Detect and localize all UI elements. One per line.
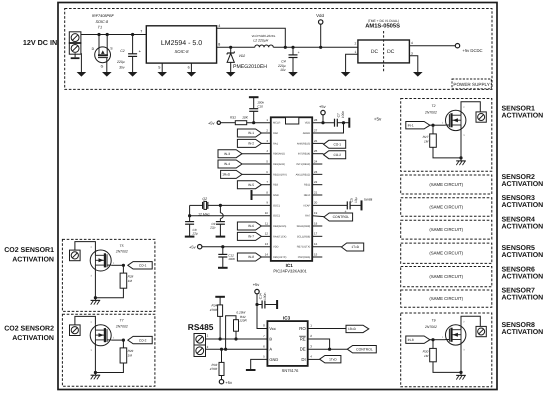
svg-text:T7: T7 (120, 319, 124, 323)
svg-text:ACTIVATION: ACTIVATION (502, 202, 544, 209)
svg-text:6: 6 (188, 65, 190, 69)
svg-text:+: + (298, 51, 300, 55)
svg-text:RB3: RB3 (273, 184, 279, 187)
svg-text:RA7: RA7 (305, 215, 311, 218)
transistor T1 IRF7408PBF reverse-polarity P-MOSFET (95, 47, 111, 63)
wire VDD pin 28 (312, 122, 334, 124)
sensor6 dashed box (SAME CIRCUIT) (401, 267, 492, 287)
svg-text:CO2 SENSOR2: CO2 SENSOR2 (4, 326, 54, 333)
svg-text:T2: T2 (432, 104, 436, 108)
resistor R31 10K + terminal +5v (217, 121, 220, 124)
svg-text:100n: 100n (341, 111, 345, 119)
svg-text:+5v DCDC: +5v DCDC (462, 48, 482, 53)
sensor2 dashed box (SAME CIRCUIT) (401, 175, 492, 194)
svg-text:VLCF5020-221KL: VLCF5020-221KL (251, 34, 275, 38)
ground (VD2) (226, 72, 236, 77)
power supply dashed enclosure (65, 9, 492, 90)
svg-text:CO-2: CO-2 (139, 338, 147, 342)
wire source/ground (433, 362, 461, 373)
ground (co2 sensor2) (91, 374, 101, 376)
svg-text:IN-7: IN-7 (248, 235, 254, 239)
svg-text:RA0: RA0 (273, 132, 279, 135)
svg-text:(SAME CIRCUIT): (SAME CIRCUIT) (429, 296, 463, 301)
svg-text:C4: C4 (281, 60, 285, 64)
svg-text:IN-8: IN-8 (248, 255, 254, 259)
svg-text:OSC1: OSC1 (273, 204, 281, 207)
sensor8 dashed box (401, 313, 492, 387)
schematic outer border (58, 3, 497, 390)
svg-text:IRF7408PBF: IRF7408PBF (92, 14, 115, 18)
svg-text:PIC24FV32KA301: PIC24FV32KA301 (273, 269, 307, 274)
net flag IN-8 (sensor8) (406, 336, 430, 343)
wire connector to drain (75, 316, 96, 325)
POWER SUPPLY label box (452, 79, 491, 89)
svg-text:+5v: +5v (189, 245, 196, 250)
capacitor C4 220u 10v (291, 46, 294, 49)
wire source down (94, 265, 96, 300)
crystal Q2 12MHz (190, 204, 203, 206)
pin 6 stub + ground (190, 63, 192, 72)
svg-text:IN7(RB14): IN7(RB14) (298, 153, 310, 156)
svg-text:(SAME CIRCUIT): (SAME CIRCUIT) (429, 182, 463, 187)
svg-text:ACTIVATION: ACTIVATION (502, 295, 544, 302)
capacitor C2 220u 35v (131, 33, 134, 36)
svg-text:14: 14 (265, 252, 269, 256)
svg-text:SCL1(RB8): SCL1(RB8) (297, 235, 310, 238)
svg-text:GND: GND (273, 194, 279, 197)
svg-text:R29: R29 (128, 349, 134, 353)
svg-text:13: 13 (265, 242, 269, 246)
svg-text:MCLR: MCLR (273, 122, 280, 125)
svg-text:+5v: +5v (253, 282, 260, 287)
svg-text:RB1(AN3): RB1(AN3) (273, 163, 285, 166)
capacitor C9 22p (219, 204, 222, 207)
svg-text:IC1: IC1 (286, 263, 294, 268)
svg-text:IN-8: IN-8 (408, 338, 414, 342)
svg-text:T1: T1 (98, 26, 102, 30)
svg-text:(SAME CIRCUIT): (SAME CIRCUIT) (429, 227, 463, 232)
svg-text:RB11: RB11 (304, 184, 311, 187)
svg-text:17: 17 (314, 232, 318, 236)
right bare pin stubs (312, 164, 322, 257)
wire X1 minus down (80, 53, 82, 72)
svg-text:RS485: RS485 (188, 322, 214, 332)
wire R to source (95, 363, 123, 373)
svg-text:ACTIVATION: ACTIVATION (502, 329, 544, 336)
svg-text:1RxD: 1RxD (348, 327, 357, 331)
capacitor C5 10u tantal (pin 20) (312, 204, 347, 206)
svg-text:1M: 1M (128, 354, 133, 358)
svg-text:7: 7 (140, 30, 142, 34)
junction S stub (106, 33, 109, 36)
net flag 1RxD (pin 6) (221, 170, 242, 178)
svg-text:26: 26 (314, 139, 318, 143)
net flag CO-2 (co2 2) (111, 339, 123, 341)
svg-text:12V DC IN: 12V DC IN (23, 38, 57, 47)
svg-text:tantal: tantal (364, 198, 373, 202)
svg-text:IN-4: IN-4 (224, 162, 230, 166)
resistor R32 120R termination (226, 316, 236, 349)
svg-text:R27: R27 (423, 135, 429, 139)
wire DI (308, 358, 320, 360)
svg-text:RB4(AN15): RB4(AN15) (273, 225, 286, 228)
transistor T5 2N7002 (co2 1) (90, 250, 111, 271)
capacitor C10 100n (253, 111, 255, 122)
svg-text:SN75176: SN75176 (282, 368, 299, 373)
resistor R30 1M (432, 340, 434, 349)
wire drain to connector (461, 102, 480, 116)
net flag IN-5 (pin 7) (237, 181, 261, 189)
svg-text:18: 18 (314, 221, 318, 225)
svg-text:C5: C5 (350, 198, 354, 202)
svg-text:28: 28 (314, 118, 318, 122)
IC3 pin names (269, 326, 306, 362)
net flag CONTROL (DE) (347, 346, 376, 353)
IC1 pin numbers and names (265, 118, 318, 259)
svg-text:DE: DE (300, 347, 306, 352)
svg-text:10K: 10K (242, 116, 249, 120)
wire Vcc IC3 (257, 294, 267, 329)
svg-text:ACTIVATION: ACTIVATION (12, 335, 54, 342)
svg-text:DC: DC (371, 49, 379, 55)
svg-text:PGC(RB6): PGC(RB6) (298, 256, 311, 259)
svg-text:SOIC-8: SOIC-8 (175, 49, 190, 54)
svg-text:RA1: RA1 (273, 142, 279, 145)
net flag CO-1 (co2 1) (111, 264, 123, 266)
svg-text:4: 4 (218, 24, 220, 28)
net flag 1TxD (DI) (320, 356, 341, 363)
svg-text:10µ: 10µ (354, 197, 358, 203)
net flag CO-1 (pin 26) (312, 142, 323, 144)
svg-text:RB5(U2TX): RB5(U2TX) (273, 256, 287, 259)
svg-text:27: 27 (314, 128, 318, 132)
svg-text:2N7002: 2N7002 (424, 111, 437, 115)
svg-text:INT1(RB13): INT1(RB13) (296, 163, 310, 166)
svg-text:2N7002: 2N7002 (424, 325, 437, 329)
svg-text:+5v: +5v (319, 104, 326, 109)
svg-text:25: 25 (314, 149, 318, 153)
svg-text:DC: DC (387, 49, 395, 55)
resistor R29 1M (122, 340, 124, 348)
svg-text:CO-1: CO-1 (333, 143, 341, 147)
svg-text:RB10: RB10 (304, 194, 311, 197)
svg-text:100n: 100n (263, 292, 267, 300)
ground (sensor8) (456, 374, 466, 376)
svg-text:CO-1: CO-1 (139, 264, 147, 268)
wire RE to DE (308, 339, 330, 349)
svg-text:R28: R28 (128, 274, 134, 278)
junction MCLR (252, 121, 255, 124)
svg-text:Q2: Q2 (202, 197, 207, 201)
svg-text:PMEG2010EH: PMEG2010EH (233, 64, 267, 70)
pin 8 ground bar (252, 194, 271, 196)
svg-text:IN-1: IN-1 (248, 131, 254, 135)
svg-text:AN11(RB12): AN11(RB12) (296, 173, 311, 176)
svg-text:+5v: +5v (208, 121, 215, 126)
wire GND IC3 (251, 359, 268, 369)
svg-text:100n: 100n (228, 257, 235, 261)
svg-text:G: G (101, 64, 104, 68)
svg-text:IC3: IC3 (283, 315, 291, 320)
capacitor C12 100n (221, 245, 224, 248)
svg-text:Vdd: Vdd (316, 13, 324, 18)
diode VD2 PMEG2010EH (229, 46, 232, 49)
svg-text:IN-1: IN-1 (408, 123, 414, 127)
ground (C4) (288, 72, 298, 77)
wire AVSS pin 27 (312, 123, 343, 133)
svg-text:16: 16 (314, 242, 318, 246)
svg-text:IN-6: IN-6 (248, 224, 254, 228)
terminal +5v (Vdd pin 13) (198, 245, 202, 249)
svg-text:2N7002: 2N7002 (115, 250, 128, 254)
wire drain vertical (94, 325, 96, 330)
svg-text:1RxD: 1RxD (222, 173, 231, 177)
svg-text:470R: 470R (210, 367, 218, 371)
svg-text:CO-2: CO-2 (333, 153, 341, 157)
pin 5 stub + ground (161, 63, 163, 72)
wire X1 to ground bar (74, 53, 76, 57)
dcdc U2 AM1S-0505S (358, 40, 410, 63)
net flag IN-1 (pin 2) (237, 129, 261, 137)
svg-text:IN-3: IN-3 (224, 152, 230, 156)
svg-text:RB0(AN2): RB0(AN2) (273, 153, 285, 156)
net flag IN-2 (pin 3) (237, 139, 261, 147)
svg-text:3: 3 (411, 51, 413, 55)
svg-text:DI: DI (301, 357, 305, 362)
svg-text:VCAP: VCAP (303, 204, 310, 207)
co2 sensor2 dashed box (62, 314, 154, 386)
svg-text:1TxD: 1TxD (329, 357, 337, 361)
capacitor C7 100n (334, 119, 336, 127)
svg-text:1M: 1M (424, 140, 429, 144)
terminal Vdd (319, 46, 322, 49)
capacitor C14 100n (257, 304, 262, 306)
svg-text:120R: 120R (239, 318, 247, 322)
svg-text:IN-5: IN-5 (248, 183, 254, 187)
ground (co2 sensor1) (91, 299, 101, 301)
net flag IN-7 (pin 12) (237, 232, 261, 240)
svg-text:C10: C10 (257, 104, 263, 108)
svg-text:470R: 470R (210, 308, 218, 312)
resistor R28 1M (122, 265, 124, 273)
connector X2 RS485 screw terminals (194, 334, 206, 346)
ground (sensor1) (456, 160, 466, 162)
svg-text:POWER SUPPLY: POWER SUPPLY (453, 82, 489, 87)
connector (co2 sensor2) (70, 325, 81, 336)
inductor L2 220uH VLCF5020 (255, 45, 273, 47)
terminal +5v (pin 28) (321, 110, 325, 114)
svg-text:19: 19 (314, 211, 318, 215)
sensor7 dashed box (SAME CIRCUIT) (401, 290, 492, 307)
wire connector to drain (75, 242, 96, 251)
svg-text:C14: C14 (259, 293, 263, 299)
svg-text:12: 12 (265, 232, 269, 236)
resistor R33 470R pull-up (221, 349, 223, 362)
connector (sensor1) (476, 112, 486, 122)
svg-text:GND: GND (269, 357, 278, 362)
capacitor C8 22p (185, 221, 194, 223)
svg-text:(SAME CIRCUIT): (SAME CIRCUIT) (429, 251, 463, 256)
net flag IN-4 (pin 5) (218, 160, 242, 168)
net flag IN-3 (pin 4) (218, 150, 242, 158)
regulator U1 LM2594-5.0 (146, 26, 216, 63)
svg-text:35v: 35v (119, 65, 125, 69)
svg-text:T5: T5 (120, 244, 124, 248)
ground (C2) (128, 72, 138, 77)
svg-text:1: 1 (354, 50, 356, 54)
svg-text:(TME + DC IS DUAL): (TME + DC IS DUAL) (368, 19, 399, 23)
op IC3 SN75176 body (267, 321, 307, 366)
svg-text:+5v: +5v (225, 380, 232, 385)
svg-text:R31: R31 (230, 116, 236, 120)
net flag CONTROL (pin 19) (312, 215, 324, 218)
svg-text:Vcc: Vcc (269, 326, 276, 331)
svg-text:L2 220µH: L2 220µH (253, 39, 268, 43)
sensor4 dashed box (SAME CIRCUIT) (401, 220, 492, 239)
ground (IC3) (246, 369, 256, 371)
transistor T2 2N7002 (sensor1) (446, 110, 466, 130)
svg-text:R30: R30 (423, 350, 429, 354)
svg-text:CONTROL: CONTROL (356, 347, 373, 351)
svg-text:22p: 22p (192, 232, 198, 236)
svg-text:23: 23 (314, 170, 318, 174)
connector (co2 sensor1) (70, 250, 81, 261)
IC3 pin numbers (263, 324, 312, 359)
wire DE (308, 348, 348, 350)
svg-text:1M: 1M (424, 354, 429, 358)
svg-text:A: A (269, 347, 272, 352)
junction D stub (97, 33, 100, 36)
svg-text:AM1S-0505S: AM1S-0505S (365, 23, 400, 30)
connector (sensor8) (476, 326, 486, 336)
svg-text:11: 11 (265, 221, 268, 225)
svg-text:CONTROL: CONTROL (333, 215, 350, 219)
svg-text:5: 5 (158, 65, 160, 69)
connector X1 12V input screw terminals (69, 32, 81, 44)
svg-text:ACTIVATION: ACTIVATION (502, 181, 544, 188)
svg-text:RB2(U1RX): RB2(U1RX) (273, 173, 287, 176)
svg-text:10v: 10v (280, 68, 286, 72)
svg-text:ACTIVATION: ACTIVATION (502, 223, 544, 230)
svg-text:ACTIVATION: ACTIVATION (502, 273, 544, 280)
svg-text:22p: 22p (209, 226, 215, 230)
svg-text:2: 2 (354, 42, 356, 46)
svg-text:21: 21 (314, 190, 318, 194)
wire drain to connector (461, 316, 480, 330)
net flag 1TxD (pin 16) (312, 246, 341, 248)
co2 sensor1 dashed box (62, 239, 154, 311)
svg-text:VDD: VDD (273, 246, 279, 249)
svg-text:+5v: +5v (374, 116, 382, 121)
ground (T1 gate) (102, 72, 112, 77)
svg-text:OSC2: OSC2 (273, 215, 281, 218)
svg-text:(SAME CIRCUIT): (SAME CIRCUIT) (429, 204, 463, 209)
net flag CO-2 (pin 25) (312, 153, 323, 155)
ground (input) (77, 72, 87, 77)
net flag IN-1 (sensor1) (406, 122, 430, 129)
net flag IN-6 (pin 11) (237, 222, 261, 230)
svg-text:8: 8 (218, 42, 220, 46)
svg-text:ACTIVATION: ACTIVATION (502, 113, 544, 120)
svg-text:C2: C2 (120, 49, 124, 53)
svg-text:20: 20 (314, 201, 318, 205)
terminal +5v (IC3) (255, 289, 259, 293)
svg-text:ACTIVATION: ACTIVATION (12, 256, 54, 263)
wire B line (206, 338, 268, 340)
svg-text:RA4(T1CK): RA4(T1CK) (273, 235, 287, 238)
svg-text:SDA1(RB9): SDA1(RB9) (297, 225, 311, 228)
wire drain vertical (94, 250, 96, 255)
svg-text:24: 24 (314, 159, 318, 163)
wire A line (206, 348, 268, 350)
svg-text:220µ: 220µ (116, 60, 125, 64)
svg-text:RO: RO (299, 326, 306, 331)
wire 12V rail (81, 34, 146, 36)
labels SENSOR1-8 ACTIVATION (502, 106, 544, 336)
wire source/ground (433, 147, 461, 158)
svg-text:4: 4 (411, 41, 413, 45)
svg-text:15: 15 (314, 252, 318, 256)
svg-text:IN-2: IN-2 (248, 142, 254, 146)
svg-text:CO2 SENSOR1: CO2 SENSOR1 (4, 247, 54, 254)
svg-text:SOIC-8: SOIC-8 (95, 20, 109, 24)
wire RO (308, 328, 346, 330)
terminal +5v DCDC (455, 44, 459, 48)
svg-text:VD2: VD2 (239, 54, 246, 58)
svg-text:1M: 1M (128, 279, 133, 283)
sensor3 dashed box (SAME CIRCUIT) (401, 198, 492, 216)
wire OSC2 (189, 205, 191, 221)
svg-text:C7: C7 (337, 113, 341, 117)
svg-text:ACTIVATION: ACTIVATION (502, 252, 544, 259)
sensor1 dashed box (401, 99, 492, 172)
svg-text:22: 22 (314, 180, 318, 184)
svg-text:RB7(U1TX): RB7(U1TX) (297, 246, 311, 249)
svg-text:T9: T9 (432, 318, 436, 322)
svg-text:AGND: AGND (303, 132, 311, 135)
svg-text:10: 10 (265, 211, 269, 215)
transistor T7 2N7002 (co2 2) (90, 325, 111, 346)
svg-text:RE: RE (300, 336, 306, 341)
op IC1 PIC24FV32KA301 body (271, 117, 312, 261)
net flag IN-8 (pin 14) (237, 253, 261, 261)
transistor T9 2N7002 (sensor8) (446, 325, 466, 345)
svg-text:2N7002: 2N7002 (115, 324, 128, 328)
svg-text:B: B (269, 336, 272, 341)
wire R to source (95, 288, 123, 298)
svg-text:LM2594 - 5.0: LM2594 - 5.0 (161, 40, 202, 47)
svg-text:1TxD: 1TxD (351, 245, 359, 249)
svg-text:AN9(RB15): AN9(RB15) (297, 142, 310, 145)
net flag 1RxD (RO) (346, 325, 369, 332)
resistor R27 1M (432, 125, 434, 134)
wire source down (94, 340, 96, 375)
sensor5 dashed box (SAME CIRCUIT) (401, 243, 492, 263)
svg-text:VDD: VDD (305, 122, 311, 125)
resistor R34 470R pull-down (215, 296, 225, 298)
svg-text:(SAME CIRCUIT): (SAME CIRCUIT) (429, 274, 463, 279)
